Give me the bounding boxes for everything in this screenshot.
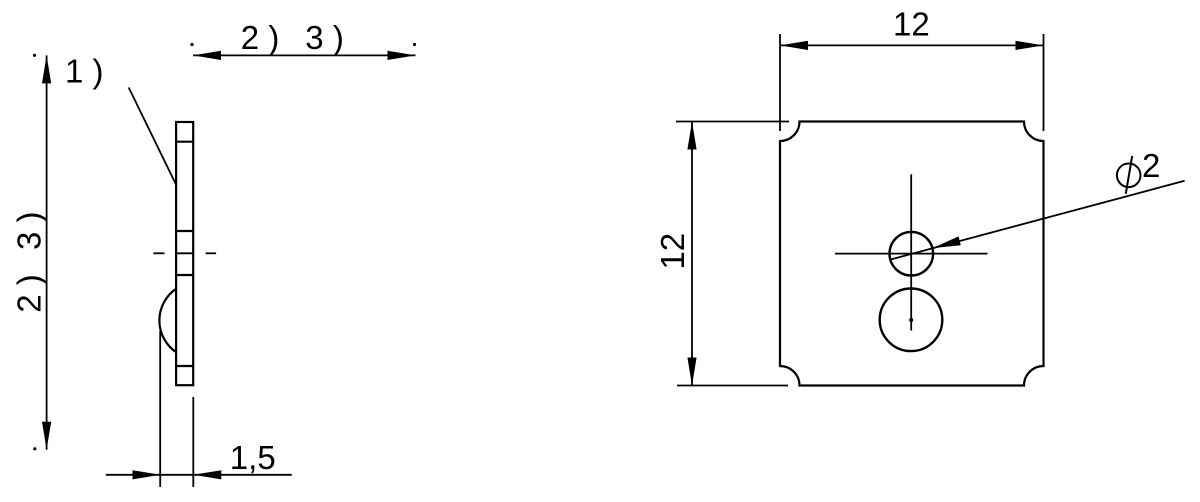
svg-text:12: 12 <box>893 6 930 43</box>
svg-text:2 ): 2 ) <box>10 274 47 313</box>
svg-text:1,5: 1,5 <box>230 439 276 476</box>
svg-text:3 ): 3 ) <box>305 19 344 56</box>
svg-text:1 ): 1 ) <box>65 53 104 90</box>
svg-text:2: 2 <box>1142 147 1160 184</box>
svg-text:12: 12 <box>654 233 691 270</box>
svg-text:3 ): 3 ) <box>10 211 47 250</box>
svg-text:2 ): 2 ) <box>241 19 280 56</box>
